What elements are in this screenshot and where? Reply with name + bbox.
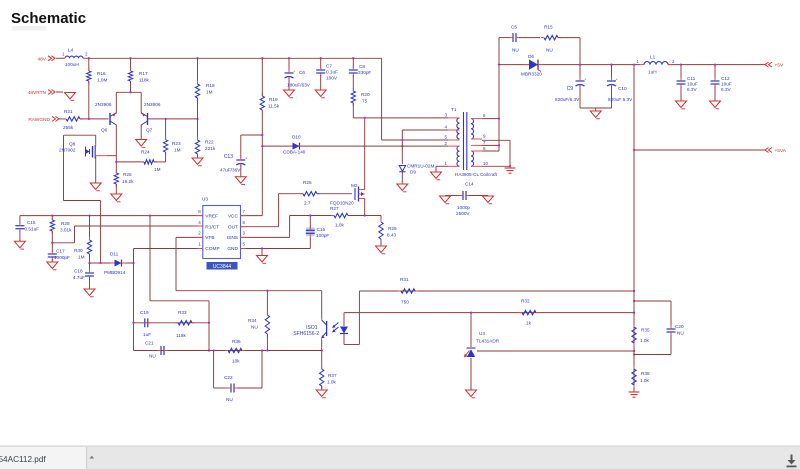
svg-text:10k: 10k bbox=[232, 359, 240, 364]
svg-text:R38: R38 bbox=[641, 371, 650, 376]
svg-text:1000pF: 1000pF bbox=[54, 255, 70, 260]
svg-text:1uH: 1uH bbox=[648, 70, 657, 75]
svg-text:11.5k: 11.5k bbox=[268, 104, 280, 109]
svg-text:54AC112.pdf: 54AC112.pdf bbox=[0, 455, 46, 464]
svg-text:3.01k: 3.01k bbox=[60, 228, 72, 233]
svg-text:NU: NU bbox=[251, 325, 258, 330]
svg-text:C18: C18 bbox=[74, 269, 83, 274]
svg-text:R1/CT: R1/CT bbox=[205, 224, 219, 230]
svg-text:NU: NU bbox=[677, 331, 684, 336]
svg-text:R32: R32 bbox=[521, 299, 530, 304]
svg-text:100uH: 100uH bbox=[65, 62, 79, 67]
svg-text:C5: C5 bbox=[511, 25, 517, 30]
svg-text:COMP: COMP bbox=[205, 246, 219, 252]
svg-text:R33: R33 bbox=[178, 310, 187, 315]
svg-text:100V: 100V bbox=[326, 76, 338, 81]
svg-text:48VRTN: 48VRTN bbox=[28, 90, 47, 96]
svg-text:D11: D11 bbox=[110, 252, 119, 257]
svg-text:1M: 1M bbox=[206, 90, 213, 95]
svg-text:180uF/63V: 180uF/63V bbox=[287, 83, 311, 88]
svg-text:C19: C19 bbox=[140, 310, 149, 315]
svg-text:1.0M: 1.0M bbox=[97, 78, 108, 83]
svg-text:C16: C16 bbox=[317, 227, 326, 232]
svg-text:Q6: Q6 bbox=[101, 128, 108, 133]
svg-text:NU: NU bbox=[512, 48, 519, 53]
svg-text:C8: C8 bbox=[359, 64, 365, 69]
svg-text:2N7002: 2N7002 bbox=[59, 148, 76, 153]
svg-text:1M: 1M bbox=[174, 148, 181, 153]
svg-text:Q7: Q7 bbox=[146, 128, 153, 133]
svg-text:D9: D9 bbox=[410, 170, 416, 175]
svg-text:118k: 118k bbox=[176, 333, 186, 338]
svg-text:C15: C15 bbox=[27, 220, 36, 225]
svg-text:C17: C17 bbox=[56, 249, 65, 254]
svg-text:R17: R17 bbox=[139, 71, 148, 76]
svg-text:16.2k: 16.2k bbox=[122, 179, 134, 184]
svg-text:CDBA-140: CDBA-140 bbox=[283, 150, 306, 155]
svg-text:MBR3320: MBR3320 bbox=[521, 72, 542, 77]
svg-text:255k: 255k bbox=[63, 125, 74, 130]
svg-text:HA3905-CL Coilcraft: HA3905-CL Coilcraft bbox=[455, 172, 498, 177]
svg-text:2N3906: 2N3906 bbox=[144, 102, 161, 107]
svg-text:R35: R35 bbox=[641, 328, 650, 333]
svg-text:1k: 1k bbox=[526, 321, 532, 326]
svg-text:R26: R26 bbox=[303, 180, 312, 185]
svg-text:U4: U4 bbox=[479, 331, 485, 336]
svg-text:NU: NU bbox=[546, 48, 553, 53]
svg-text:C12: C12 bbox=[721, 76, 730, 81]
svg-text:Schematic: Schematic bbox=[11, 10, 86, 27]
svg-text:1M: 1M bbox=[78, 255, 85, 260]
svg-text:R15: R15 bbox=[544, 25, 553, 30]
svg-text:C20: C20 bbox=[675, 324, 684, 329]
svg-text:C7: C7 bbox=[326, 64, 332, 69]
svg-text:R30: R30 bbox=[74, 248, 83, 253]
svg-text:330pF: 330pF bbox=[358, 70, 371, 75]
svg-text:6.3V: 6.3V bbox=[687, 87, 698, 92]
svg-text:TL431ADR: TL431ADR bbox=[476, 339, 500, 344]
svg-text:75: 75 bbox=[362, 99, 368, 104]
svg-text:C21: C21 bbox=[145, 341, 154, 346]
svg-text:ISNS: ISNS bbox=[227, 235, 238, 241]
svg-text:10: 10 bbox=[483, 161, 489, 166]
svg-text:UC3844: UC3844 bbox=[213, 264, 232, 270]
svg-text:+5V: +5V bbox=[775, 63, 784, 69]
svg-text:R37: R37 bbox=[328, 373, 337, 378]
svg-text:R21: R21 bbox=[64, 109, 73, 114]
svg-text:R36: R36 bbox=[232, 339, 241, 344]
svg-text:VFB: VFB bbox=[205, 235, 214, 241]
svg-text:1.0k: 1.0k bbox=[327, 380, 337, 385]
svg-text:R24: R24 bbox=[141, 150, 150, 155]
svg-text:1.0k: 1.0k bbox=[640, 378, 650, 383]
svg-text:6.3V: 6.3V bbox=[721, 87, 732, 92]
svg-text:T1: T1 bbox=[451, 107, 457, 112]
svg-text:C10: C10 bbox=[618, 86, 627, 91]
svg-text:C11: C11 bbox=[687, 76, 696, 81]
svg-text:D6: D6 bbox=[528, 54, 534, 59]
svg-text:VREF: VREF bbox=[205, 214, 218, 220]
svg-text:FQD10N20: FQD10N20 bbox=[330, 201, 354, 206]
svg-text:820uF 6.3V: 820uF 6.3V bbox=[608, 97, 633, 102]
svg-text:R20: R20 bbox=[361, 92, 370, 97]
svg-text:C9: C9 bbox=[567, 86, 574, 92]
svg-text:VCC: VCC bbox=[228, 214, 239, 220]
svg-text:2.7: 2.7 bbox=[304, 201, 311, 206]
svg-text:750: 750 bbox=[401, 300, 409, 305]
svg-text:R29: R29 bbox=[388, 226, 397, 231]
svg-text:R28: R28 bbox=[61, 221, 70, 226]
svg-text:SFH6156-2: SFH6156-2 bbox=[293, 331, 319, 337]
svg-text:R22: R22 bbox=[205, 140, 214, 145]
svg-text:Q8: Q8 bbox=[69, 142, 76, 147]
svg-text:1M: 1M bbox=[154, 167, 161, 172]
svg-text:R25: R25 bbox=[123, 172, 132, 177]
svg-text:OUT: OUT bbox=[228, 224, 238, 230]
svg-text:RAWGND: RAWGND bbox=[28, 117, 50, 123]
svg-text:R34: R34 bbox=[248, 318, 257, 323]
svg-text:NU: NU bbox=[226, 397, 233, 402]
svg-text:10uF: 10uF bbox=[721, 82, 732, 87]
svg-text:47uF/36V: 47uF/36V bbox=[220, 168, 241, 173]
svg-text:D10: D10 bbox=[292, 135, 301, 140]
svg-text:R27: R27 bbox=[330, 206, 339, 211]
svg-text:1.0k: 1.0k bbox=[335, 223, 345, 228]
svg-text:C22: C22 bbox=[224, 375, 233, 380]
svg-text:L4: L4 bbox=[68, 48, 74, 53]
svg-text:L1: L1 bbox=[650, 55, 656, 60]
svg-text:0.51uF: 0.51uF bbox=[25, 227, 40, 232]
svg-text:+5VA: +5VA bbox=[775, 148, 787, 154]
svg-text:2N3906: 2N3906 bbox=[95, 102, 112, 107]
svg-text:118k: 118k bbox=[139, 78, 149, 83]
svg-text:1.0k: 1.0k bbox=[640, 338, 650, 343]
svg-text:1uF: 1uF bbox=[143, 332, 151, 337]
svg-text:R23: R23 bbox=[172, 141, 181, 146]
svg-text:8.43: 8.43 bbox=[387, 233, 397, 238]
svg-text:R18: R18 bbox=[206, 83, 215, 88]
svg-text:U3: U3 bbox=[202, 197, 208, 202]
svg-text:2500V: 2500V bbox=[456, 211, 470, 216]
svg-text:C14: C14 bbox=[465, 182, 474, 187]
svg-text:10uF: 10uF bbox=[687, 82, 698, 87]
svg-text:4.7uF: 4.7uF bbox=[73, 275, 85, 280]
svg-text:820uF/6.3V: 820uF/6.3V bbox=[555, 97, 580, 102]
svg-text:GND: GND bbox=[227, 246, 238, 252]
svg-text:0.1uF: 0.1uF bbox=[326, 70, 338, 75]
svg-text:100pF: 100pF bbox=[316, 233, 329, 238]
svg-text:1000p: 1000p bbox=[457, 205, 470, 210]
svg-text:C13: C13 bbox=[224, 154, 233, 160]
svg-text:CMR1U-02M: CMR1U-02M bbox=[407, 164, 434, 169]
svg-text:M2: M2 bbox=[351, 183, 358, 188]
svg-text:C6: C6 bbox=[299, 70, 305, 75]
svg-text:48V: 48V bbox=[37, 56, 46, 62]
svg-text:PMBD914: PMBD914 bbox=[104, 270, 126, 275]
svg-text:NU: NU bbox=[149, 354, 156, 359]
svg-text:R31: R31 bbox=[400, 277, 409, 282]
svg-text:R16: R16 bbox=[97, 71, 106, 76]
svg-text:221k: 221k bbox=[205, 146, 216, 151]
svg-text:R19: R19 bbox=[269, 97, 278, 102]
